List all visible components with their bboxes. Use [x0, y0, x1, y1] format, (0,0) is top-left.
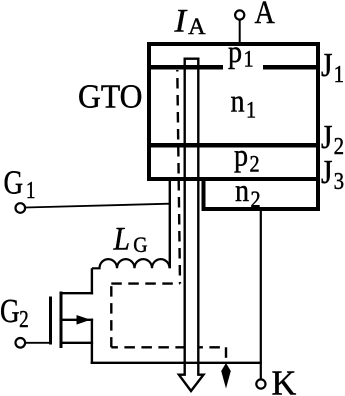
svg-text:G: G [0, 292, 20, 330]
svg-text:GTO: GTO [78, 79, 142, 116]
svg-text:2: 2 [249, 151, 259, 176]
junction J1 line (right segment) [263, 65, 318, 70]
label J3 junction [321, 153, 344, 194]
label n1 layer [231, 83, 257, 123]
svg-text:L: L [113, 220, 130, 257]
MOSFET gate bar [49, 297, 52, 345]
svg-text:G: G [4, 164, 24, 202]
label IA (anode current) [173, 3, 205, 40]
label LG (gate inductance) [113, 220, 148, 257]
dashed loop right vertical to arrow [225, 347, 227, 364]
svg-text:n: n [231, 83, 245, 119]
svg-text:K: K [272, 364, 297, 396]
MOSFET body arrowhead [77, 315, 91, 325]
svg-text:2: 2 [19, 306, 29, 333]
svg-text:1: 1 [26, 177, 36, 204]
dashed gate-current loop: vertical from J1 down inside box [177, 70, 180, 284]
anode wire [239, 21, 241, 45]
svg-text:G: G [133, 232, 147, 257]
label p1 layer [228, 33, 254, 71]
G2 terminal circle [15, 338, 25, 348]
hollow anode-current arrow IA (white filled) [179, 59, 204, 391]
svg-text:n: n [235, 172, 249, 208]
svg-text:1: 1 [243, 46, 253, 71]
inductor LG coil (4 humps) [92, 259, 170, 268]
svg-text:A: A [255, 0, 275, 31]
dashed loop bottom horizontal [111, 346, 226, 348]
svg-text:J: J [321, 118, 333, 155]
MOSFET body lead with arrow [61, 319, 93, 321]
source/body vertical down to bottom wire [91, 319, 93, 364]
label p2 layer [234, 137, 260, 177]
label A (anode terminal) [255, 0, 275, 31]
svg-text:1: 1 [334, 61, 344, 88]
cathode wire [260, 209, 262, 379]
anode terminal circle A [235, 10, 244, 19]
MOSFET drain lead [61, 292, 93, 294]
G1 terminal circle [15, 203, 25, 213]
cathode terminal circle K [256, 379, 265, 388]
svg-text:I: I [173, 3, 187, 39]
svg-text:1: 1 [246, 97, 256, 122]
MOSFET source lead [61, 342, 93, 344]
gate vertical wire from box bottom to inductor [169, 179, 171, 268]
svg-text:3: 3 [334, 168, 344, 195]
svg-text:p: p [228, 33, 242, 69]
n2 cathode box [204, 179, 319, 209]
dashed loop top horizontal [111, 282, 180, 284]
svg-text:J: J [321, 46, 333, 83]
label G2 (gate 2 terminal) [0, 292, 29, 332]
label G1 (gate 1 terminal) [4, 164, 36, 204]
label GTO [78, 79, 142, 116]
label n2 layer [235, 172, 261, 212]
svg-text:2: 2 [250, 187, 260, 212]
label J1 junction [321, 46, 344, 87]
dashed loop left vertical [110, 284, 112, 348]
GTO main box (p1/n1/p2 layers) [149, 44, 318, 179]
junction J1 line (left segment) [149, 65, 223, 70]
bottom cathode wire [91, 362, 262, 364]
svg-text:2: 2 [334, 133, 344, 160]
label K (cathode terminal) [272, 364, 297, 396]
svg-text:J: J [321, 153, 333, 190]
junction J2 line [149, 143, 318, 148]
wire from coil down to MOSFET drain [91, 268, 93, 294]
svg-text:p: p [234, 137, 248, 173]
svg-text:A: A [188, 14, 205, 39]
dashed-loop filled arrowhead [221, 363, 231, 389]
MOSFET channel bar [60, 292, 63, 349]
label J2 junction [321, 118, 344, 159]
G1 wire [26, 204, 170, 208]
G2 wire [26, 342, 52, 344]
